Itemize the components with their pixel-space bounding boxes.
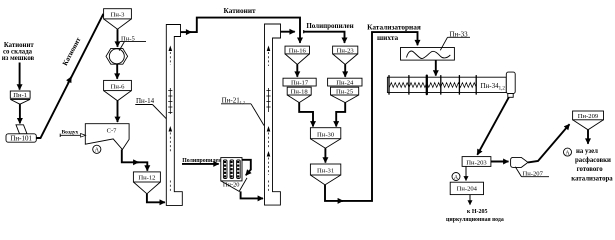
svg-text:катализатора: катализатора: [571, 175, 613, 182]
wire: Пн-207 to Пн-209: [528, 124, 570, 162]
bunker Пн-3: [104, 9, 132, 30]
svg-text:Пн-25: Пн-25: [336, 89, 354, 96]
svg-text:Пн-18: Пн-18: [291, 89, 309, 96]
bunker Пн-16: [285, 46, 310, 64]
svg-text:на узел: на узел: [576, 148, 598, 155]
svg-text:Пн-24: Пн-24: [336, 79, 354, 86]
svg-text:Пн-1: Пн-1: [13, 92, 27, 99]
screen Пн-33: [401, 48, 455, 61]
svg-text:Воздух: Воздух: [62, 129, 79, 135]
wire: Пн-20 to elevator Пн-21 boot: [241, 191, 263, 198]
wire: Пн-33 to screw conveyor: [435, 60, 437, 76]
node: sampling point А near С-7: [93, 145, 101, 153]
mill Пн-5: [106, 48, 128, 64]
node: destination text на узел расфасовки: [571, 148, 613, 183]
bunker Пн-12: [133, 172, 160, 194]
node: label Пн-5 with leader: [119, 35, 146, 50]
node: destination text к Н-205: [446, 209, 504, 223]
node: sampling point А near Пн-204: [452, 173, 460, 181]
feeder Пн-20 with Полипропилен inlet: [182, 158, 222, 164]
svg-text:Пн-6: Пн-6: [111, 83, 125, 90]
svg-text:Полипропилен: Полипропилен: [306, 22, 353, 30]
wire: Пн-16 to Пн-17: [296, 65, 298, 77]
svg-text:Пн-23: Пн-23: [337, 47, 355, 54]
wire: screw conveyor to Пн-203: [477, 97, 509, 155]
node: label Пн-14 with leader: [135, 97, 166, 119]
svg-text:Пн-12: Пн-12: [138, 175, 155, 182]
node: air inlet Воздух: [60, 129, 85, 137]
node: label Пн-21 with leader: [221, 96, 264, 125]
svg-text:Пн-31: Пн-31: [317, 168, 334, 175]
wire: Пн-30 to Пн-31: [324, 148, 326, 162]
wire: С-7 to Пн-12: [122, 150, 148, 171]
wire: Пн-23 to Пн-24: [344, 65, 346, 77]
bunker Пн-209: [573, 111, 604, 130]
svg-text:из мешков: из мешков: [2, 55, 35, 62]
feeder Пн-101: [6, 125, 36, 143]
svg-text:шихта: шихта: [377, 33, 399, 42]
svg-text:Пн-204: Пн-204: [457, 186, 478, 193]
wire: Пн-3 to mill: [117, 29, 119, 47]
mixer Пн-30: [310, 128, 340, 149]
wire: Пн-209 to packing: [587, 130, 589, 144]
svg-text:Катализаторная: Катализаторная: [367, 22, 421, 31]
wire: Пн-18 to Пн-30: [299, 103, 313, 127]
feeder Пн-17 on bunker Пн-18: [283, 78, 316, 102]
svg-text:А: А: [95, 148, 100, 154]
svg-text:циркуляционная вода: циркуляционная вода: [446, 217, 504, 223]
wire: Пн-21 head outlet Полипропилен line: [281, 31, 295, 33]
svg-text:Пн-14: Пн-14: [136, 97, 155, 105]
node: label Пн-33 with leader: [440, 30, 470, 50]
svg-text:Пн-101: Пн-101: [10, 135, 32, 143]
feeder Пн-24 on bunker Пн-25: [328, 78, 362, 102]
tank Пн-204: [450, 182, 483, 194]
hopper Пн-203: [462, 157, 491, 167]
wire: Пн-31 catalyst riser to Пн-33: [325, 185, 343, 201]
rotary feeder Пн-207: [511, 157, 549, 177]
wire: Пн-12 to elevator Пн-14 boot: [147, 194, 165, 203]
svg-text:Пн-3: Пн-3: [111, 12, 125, 19]
wire: Пн-25 to Пн-30: [336, 103, 345, 127]
node: source text "Катионит со склада из мешков": [2, 42, 35, 62]
screw conveyor Пн-34: [387, 72, 515, 97]
wire: Пн-203 to Пн-204: [465, 166, 467, 180]
svg-text:Катионит: Катионит: [224, 6, 256, 15]
bunker Пн-31: [310, 164, 340, 185]
svg-text:Пн-20: Пн-20: [223, 182, 240, 189]
wire: Пн-14 head outlet, Катионит line to Пн-16: [181, 31, 192, 33]
svg-text:Пн-30: Пн-30: [317, 131, 335, 138]
wire: Пн-204 to Н-205: [469, 195, 471, 205]
wire: inclined conveyor Пн-101 to Пн-3: [36, 14, 103, 138]
classifier С-7: [85, 124, 129, 150]
node: sampling point А near Пн-209: [564, 148, 572, 156]
svg-text:к Н-205: к Н-205: [467, 209, 488, 215]
svg-text:С-7: С-7: [107, 128, 118, 135]
elevator Пн-14: [166, 25, 182, 206]
svg-text:Пн-16: Пн-16: [289, 47, 307, 54]
wire: Пн-203 to Пн-207: [491, 161, 509, 163]
svg-text:Пн-209: Пн-209: [578, 113, 599, 120]
svg-text:расфасовки: расфасовки: [575, 157, 611, 164]
svg-text:Пн-17: Пн-17: [291, 79, 309, 86]
svg-text:готового: готового: [577, 166, 604, 173]
elevator Пн-21: [265, 24, 281, 205]
wire: feed arrow into Пн-1: [19, 63, 21, 90]
bunker Пн-23: [333, 46, 358, 64]
wire: Пн-20 recycle return: [242, 160, 251, 176]
wire: Пн-6 to С-7: [117, 101, 119, 122]
svg-text:Пн-203: Пн-203: [466, 159, 487, 166]
wire: mill to Пн-6: [116, 64, 118, 79]
bunker Пн-1: [10, 91, 30, 104]
wire: Пн-1 to Пн-101: [19, 104, 21, 123]
node: title Катализаторная шихта: [367, 22, 421, 42]
bunker Пн-6: [104, 80, 132, 100]
